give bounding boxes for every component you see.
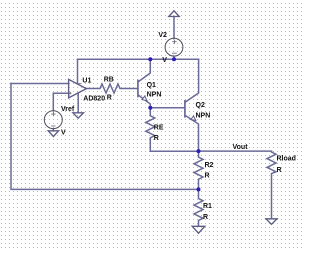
- svg-text:Vref: Vref: [61, 106, 75, 113]
- svg-text:R: R: [277, 167, 282, 174]
- svg-text:AD820: AD820: [83, 96, 105, 103]
- svg-text:Q2: Q2: [196, 102, 205, 109]
- svg-text:R: R: [205, 173, 210, 180]
- svg-text:R1: R1: [203, 203, 212, 210]
- svg-text:R: R: [154, 135, 159, 142]
- svg-text:RB: RB: [104, 77, 114, 84]
- svg-text:RE: RE: [154, 125, 164, 132]
- svg-text:NPN: NPN: [147, 92, 162, 99]
- svg-text:R: R: [107, 94, 112, 101]
- svg-text:R2: R2: [205, 162, 214, 169]
- svg-text:U1: U1: [82, 78, 91, 85]
- svg-text:V: V: [61, 130, 66, 137]
- svg-text:V: V: [162, 57, 167, 64]
- svg-text:V2: V2: [158, 32, 167, 39]
- svg-text:Q1: Q1: [147, 82, 156, 89]
- svg-text:NPN: NPN: [196, 113, 211, 120]
- svg-text:Vout: Vout: [233, 144, 249, 151]
- svg-text:R: R: [203, 214, 208, 221]
- svg-text:Rload: Rload: [277, 156, 296, 163]
